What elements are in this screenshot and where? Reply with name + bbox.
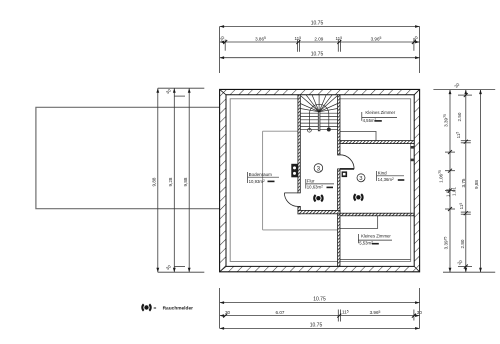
svg-text:2.09: 2.09 <box>314 36 323 41</box>
svg-text:=: = <box>154 307 157 312</box>
door Flur to Bodenraum <box>284 193 298 207</box>
svg-text:Kleines Zimmer: Kleines Zimmer <box>365 110 395 115</box>
bottom dimension line 10.75 (first) <box>220 302 420 304</box>
smoke detector Kind <box>354 194 362 200</box>
svg-text:3.75: 3.75 <box>461 178 466 187</box>
stair treads right flight <box>320 112 338 114</box>
left annex rectangle <box>36 107 220 208</box>
label Kind <box>377 171 405 182</box>
svg-text:2.50: 2.50 <box>457 112 462 121</box>
stair walk end dot <box>327 128 330 131</box>
kleines zimmer bottom 1m step line <box>340 216 378 229</box>
svg-text:10.75: 10.75 <box>310 322 323 328</box>
svg-text:10.75: 10.75 <box>311 51 324 57</box>
label Kleines Zimmer top <box>362 110 397 123</box>
stair treads left flight <box>300 112 318 114</box>
bottom chain tick slashes <box>223 314 416 318</box>
label Flur <box>306 178 334 189</box>
label Bodenraum <box>248 172 279 184</box>
left dim arrows <box>156 88 190 272</box>
top arrows <box>220 25 420 59</box>
svg-text:Flur: Flur <box>307 178 315 183</box>
svg-text:Kleines Zimmer: Kleines Zimmer <box>361 233 391 238</box>
stair spine <box>318 112 320 131</box>
wall W4 Kind bottom <box>340 213 414 216</box>
svg-text:Kind: Kind <box>378 171 388 176</box>
kleines zimmer top 1m step line <box>340 131 376 140</box>
top chain tick slashes <box>223 40 416 44</box>
svg-text:Rauchmelder: Rauchmelder <box>163 306 194 312</box>
stair enclosure <box>300 95 337 132</box>
legend smoke detector symbol <box>142 304 150 310</box>
label Kleines Zimmer bottom <box>358 233 392 245</box>
bottom dimension line 10.75 (second) <box>220 327 420 329</box>
flur bottom wall <box>298 210 340 213</box>
svg-text:3: 3 <box>317 165 321 172</box>
svg-text:4,55m2: 4,55m2 <box>363 118 377 123</box>
right dimension verticals <box>433 90 495 273</box>
svg-text:2.80: 2.80 <box>460 239 465 248</box>
svg-text:9,88: 9,88 <box>474 180 479 189</box>
svg-text:10,93m2: 10,93m2 <box>249 179 265 184</box>
wall corner miters <box>220 89 420 271</box>
svg-text:9,88: 9,88 <box>183 177 188 186</box>
shaft block at Kind door <box>342 171 348 177</box>
right dim arrows <box>449 90 482 273</box>
stair winder rays <box>300 109 319 112</box>
svg-text:10,63m2: 10,63m2 <box>307 184 323 189</box>
bottom extension lines <box>219 288 221 328</box>
bottom chain dimension line <box>220 310 420 322</box>
svg-text:Bodenraum: Bodenraum <box>249 172 273 177</box>
left dimension verticals <box>158 88 205 272</box>
circled 3 Kind <box>357 174 365 182</box>
top chain dimension line <box>220 40 420 52</box>
svg-text:5,53m2: 5,53m2 <box>359 241 373 246</box>
svg-text:14,36m2: 14,36m2 <box>378 177 394 182</box>
top dimension line 10.75 (second) <box>220 57 420 59</box>
svg-text:10.75: 10.75 <box>311 21 324 27</box>
top dimension line 10.75 (first) <box>220 26 420 28</box>
circled 3 Flur <box>314 164 323 173</box>
door Kind <box>340 155 354 169</box>
svg-text:10.75: 10.75 <box>313 297 326 303</box>
inner perimeter offset line <box>230 99 410 262</box>
top extension lines <box>219 27 221 74</box>
smoke detector Flur <box>314 195 322 201</box>
svg-text:6.07: 6.07 <box>276 310 285 315</box>
Bodenraum 1m height lines <box>263 131 338 230</box>
wall W2 stair/flur right, continues to bottom <box>338 95 340 267</box>
outer wall ring (hatched) <box>220 89 420 271</box>
svg-text:1.01: 1.01 <box>445 188 450 197</box>
svg-text:1.01: 1.01 <box>451 187 456 196</box>
stair walking line <box>309 104 328 130</box>
wall marks right wall <box>411 146 415 149</box>
svg-text:9,88: 9,88 <box>152 177 157 186</box>
svg-text:9,28: 9,28 <box>168 177 173 186</box>
wall W1 stair/flur left <box>298 95 300 214</box>
bottom arrows <box>220 301 420 330</box>
wall W3 between top room and Kind <box>340 141 414 144</box>
chimney block <box>291 164 298 178</box>
kleines zimmer bottom floor line <box>340 258 411 260</box>
stair walk start circle <box>308 128 312 132</box>
svg-text:30: 30 <box>225 310 231 315</box>
right dim tick slashes <box>448 93 468 268</box>
